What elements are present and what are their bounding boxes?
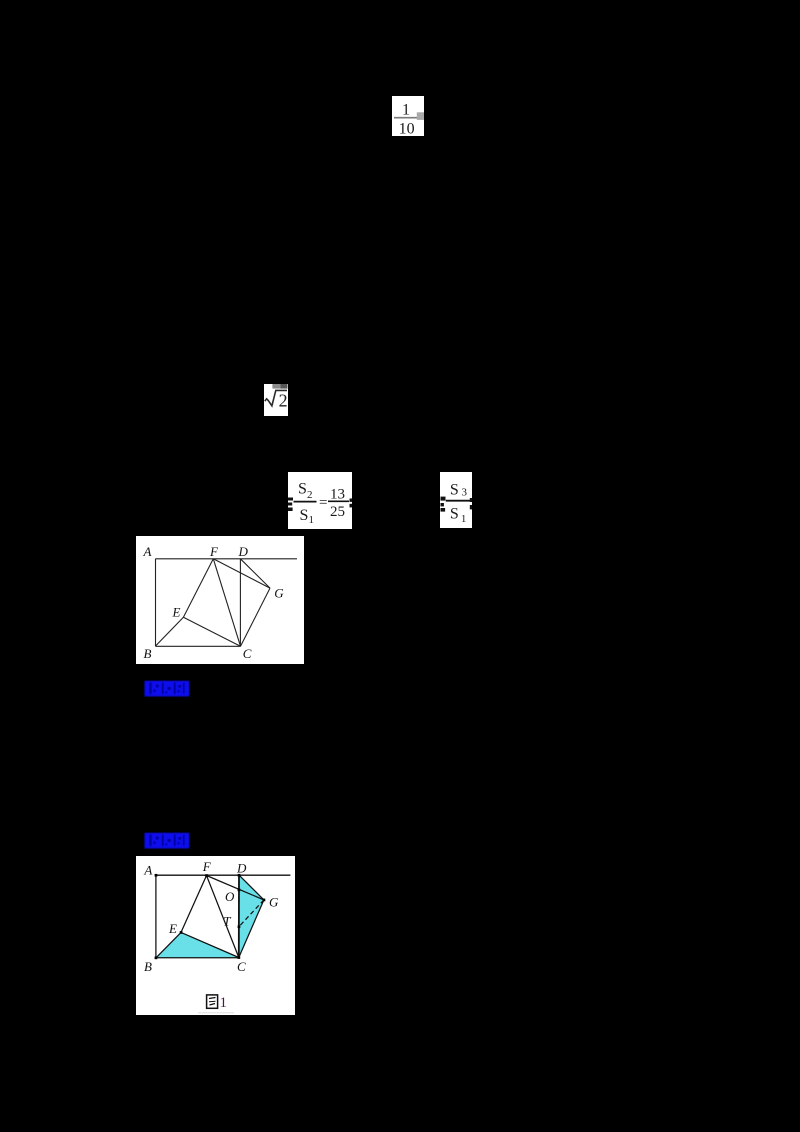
- svg-text:G: G: [274, 586, 284, 601]
- svg-text:B: B: [144, 959, 152, 974]
- svg-text:D: D: [237, 544, 248, 559]
- svg-text:1: 1: [461, 513, 467, 525]
- svg-text:2: 2: [307, 489, 313, 501]
- svg-text:25: 25: [330, 504, 345, 520]
- svg-text:C: C: [242, 646, 251, 661]
- svg-text:G: G: [269, 894, 279, 909]
- svg-text:S: S: [300, 507, 309, 524]
- svg-text:T: T: [223, 913, 231, 928]
- svg-text:F: F: [202, 859, 212, 874]
- svg-text:1: 1: [402, 102, 410, 119]
- svg-text:O: O: [225, 889, 235, 904]
- svg-text:C: C: [237, 959, 246, 974]
- svg-text:1: 1: [220, 995, 228, 1011]
- svg-text:E: E: [171, 605, 180, 620]
- svg-text:S: S: [450, 482, 459, 499]
- svg-text:F: F: [209, 544, 219, 559]
- svg-text:A: A: [143, 862, 152, 877]
- svg-text:1: 1: [309, 514, 315, 526]
- svg-text:D: D: [236, 860, 247, 875]
- svg-text:S: S: [450, 505, 459, 522]
- svg-text:B: B: [143, 646, 151, 661]
- svg-text:=: =: [319, 495, 327, 511]
- svg-text:10: 10: [399, 120, 415, 136]
- svg-text:13: 13: [330, 486, 345, 502]
- svg-text:A: A: [142, 544, 151, 559]
- svg-text:S: S: [298, 480, 307, 497]
- svg-text:E: E: [168, 921, 177, 936]
- svg-text:3: 3: [462, 487, 468, 499]
- svg-text:2: 2: [279, 391, 288, 411]
